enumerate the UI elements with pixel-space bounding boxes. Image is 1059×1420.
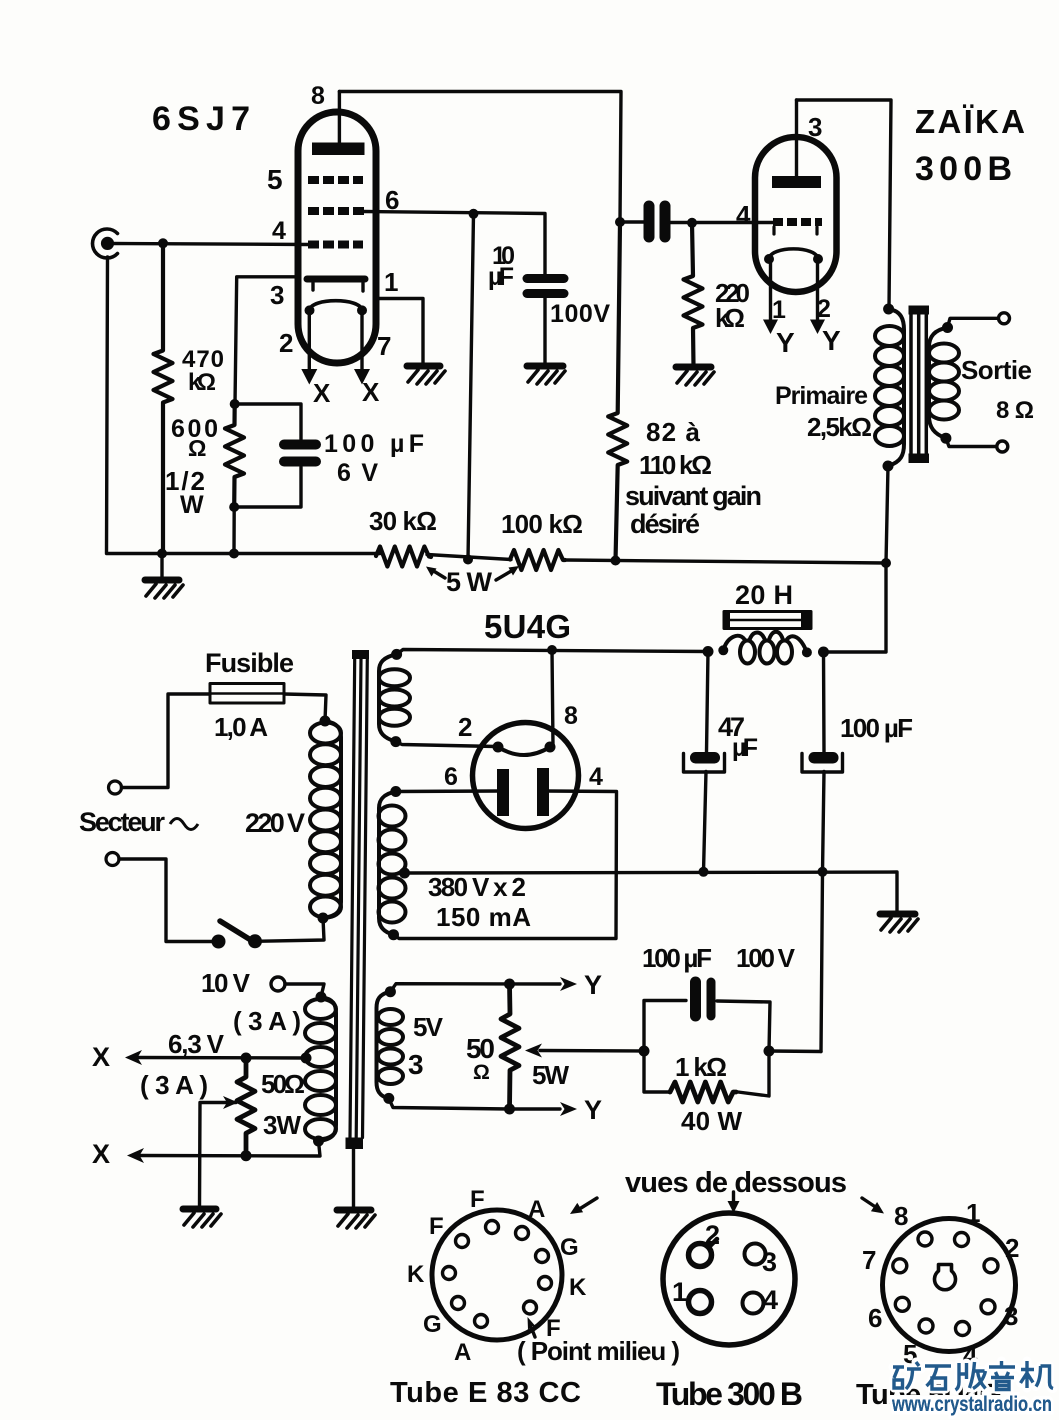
6SJ7 plate lead pin 8 (338, 92, 341, 144)
resistor R9 1k 40W (670, 1082, 736, 1102)
terminal 10V (271, 977, 285, 991)
5U4G filament (498, 747, 550, 755)
300B filament end dots (764, 254, 774, 264)
socket 5U4G pin 2 (984, 1259, 998, 1273)
wire 1k right (738, 1051, 769, 1096)
ground G1 (145, 554, 183, 599)
ground G2 pin1 (407, 366, 445, 384)
node rect filament top (391, 649, 402, 660)
wire core to ground (352, 1149, 355, 1209)
transformer T2 5V winding (377, 992, 404, 1099)
wire B+ rail to right (566, 560, 886, 563)
ground G5 core (337, 1210, 375, 1228)
terminal output top (999, 313, 1010, 324)
wire filament bottom to pin2 (396, 742, 496, 747)
socket E83CC pin K right (539, 1277, 552, 1290)
node cathode bottom (229, 502, 239, 512)
node coupling cap / plate (615, 217, 625, 227)
socket 300B pin 2 key tail (709, 1239, 717, 1247)
node choke coil end (802, 647, 812, 657)
arrow Y bottom (560, 1102, 577, 1116)
socket 300B pin 4 (743, 1293, 764, 1314)
wire pin3 of 6SJ7 to cathode network (235, 277, 299, 404)
socket 5U4G pin 4 (956, 1322, 970, 1336)
resistor R8 50ohm 5W rheostat (501, 984, 519, 1109)
wire secondary top to output terminal (948, 318, 999, 327)
node primary top (320, 716, 331, 727)
node rheostat top (504, 979, 515, 990)
node OPT primary bottom (883, 461, 894, 472)
wire 600ohm bottom to ground rail (232, 507, 236, 554)
6SJ7 grid1 control (dashed) (308, 241, 363, 249)
300B filament (769, 249, 818, 259)
node bias network left (639, 1046, 650, 1057)
fuse F1 (210, 684, 284, 704)
tube V1 6SJ7 envelope (298, 112, 376, 363)
transformer T2 core (346, 650, 370, 1149)
capacitor C6 100uF bias plates (696, 982, 712, 1016)
6SJ7 heater lead pin 2 with arrow to X (301, 310, 317, 385)
6SJ7 plate (312, 143, 365, 156)
ground G3 under 10uF (527, 366, 565, 384)
node HV centre tap (399, 868, 410, 879)
wire cap right to 300B grid (671, 221, 774, 224)
node primary bottom (318, 913, 329, 924)
wire HV top to 5U4G pin6 (396, 789, 500, 793)
wire filament top to choke input (397, 650, 708, 655)
socket 300B pin 2 (689, 1244, 712, 1267)
socket E83CC pin A bottom (475, 1315, 488, 1328)
5U4G anode left (497, 769, 509, 816)
leader arrow 5W left (426, 567, 445, 579)
node humdinger bottom (241, 1150, 252, 1161)
node B+ rail right (881, 558, 891, 568)
socket E83CC pin F bottom-right (524, 1301, 537, 1314)
5U4G anode right (537, 768, 549, 816)
node 5V bottom (383, 1093, 394, 1104)
6SJ7 heater lead pin 7 with arrow to X (354, 310, 370, 385)
transformer T1 OPT secondary winding (929, 328, 959, 439)
resistor R6 220k grid leak (684, 223, 703, 366)
wire switch to transformer primary bottom (255, 918, 324, 941)
wire pin6 screen to 10uF branch (364, 212, 545, 275)
choke L1 winding (723, 632, 807, 664)
resistor R3 30k (376, 547, 431, 567)
socket 5U4G pin 7 (893, 1259, 907, 1273)
capacitor C3 coupling plates (649, 206, 665, 237)
wire bias network left leg up (644, 1001, 686, 1052)
node 6.3V tap (301, 1053, 312, 1064)
node 600ohm rail (229, 549, 239, 559)
capacitor C5 100uF body (802, 752, 843, 772)
wire fuse to transformer primary (284, 694, 326, 721)
wire bias cap right (717, 1001, 770, 1051)
wire 5V top to Y arrow (390, 984, 560, 992)
arrow vues to 5U4G (862, 1198, 884, 1214)
choke L1 20H core (724, 612, 811, 629)
wire HV centre tap ground rail (405, 872, 898, 913)
node HV bottom (388, 929, 399, 940)
OPT core (909, 306, 930, 464)
transformer T2 primary 220V winding (310, 721, 341, 918)
node bias network right (764, 1046, 775, 1057)
node choke coil start (718, 645, 728, 655)
resistor R2 600 ohm (225, 404, 244, 507)
transformer T1 OPT primary winding (875, 309, 904, 466)
node 5V top (385, 986, 396, 997)
resistor R1 470k (154, 248, 173, 553)
capacitor C4 47uF body (684, 752, 725, 772)
6SJ7 cathode end dots (305, 305, 315, 315)
transformer T2 rectifier filament winding (379, 654, 410, 741)
arrow point milieu (528, 1317, 538, 1337)
5U4G filament dots (493, 742, 504, 753)
socket E83CC pin G lower-left (452, 1297, 465, 1310)
resistor R7 50ohm 3W (237, 1058, 255, 1156)
node HV top (390, 786, 401, 797)
ground G6 main (880, 914, 918, 932)
socket 5U4G pin 3 (981, 1300, 995, 1314)
wire X bottom line (139, 1141, 320, 1156)
switch S1 (212, 921, 263, 949)
node cathode top (230, 399, 240, 409)
socket E83CC pin K left (443, 1267, 456, 1280)
wire rail 30k to 100k (427, 555, 511, 560)
sine symbol after Secteur (170, 819, 198, 830)
node divider screen junction (463, 555, 473, 565)
wire B+ down to choke output (824, 563, 887, 652)
wire secondary bottom to output terminal (946, 438, 996, 446)
6SJ7 grid3 (dashed) (308, 176, 363, 184)
6SJ7 beam shield bar pin1 (307, 279, 365, 291)
wire 100uF to ground rail and bias network (821, 772, 824, 1052)
wire 10V to 6.3V winding top (285, 984, 324, 997)
socket 5U4G pin 6 (895, 1297, 909, 1311)
wire 47uF to ground rail (704, 772, 707, 872)
socket 300B outline (663, 1213, 795, 1345)
arrow Y top (560, 977, 577, 991)
node 470k bottom / ground rail (157, 549, 167, 559)
wire pin1 to ground (376, 299, 423, 366)
arrow X bottom (127, 1148, 144, 1163)
node OPT primary top (883, 304, 894, 315)
300B filament lead pin 2 with arrow to Y (810, 259, 825, 334)
watermark crystalradio (890, 1395, 1059, 1415)
socket E83CC pin F upper-left (456, 1235, 469, 1248)
tube V3 5U4G envelope (473, 723, 579, 829)
node 5U4G cathode tap (547, 645, 557, 655)
resistor R5 82-110k plate load (608, 222, 627, 561)
wire pin8 down into 5U4G (552, 650, 553, 746)
arrow vues to E83CC (570, 1198, 597, 1214)
node choke left (703, 646, 714, 657)
capacitor C5 100uF lead (822, 652, 826, 752)
300B plate (772, 176, 821, 188)
svg-text:www.crystalradio.cn: www.crystalradio.cn (891, 1393, 1052, 1416)
capacitor C1 plates (284, 445, 316, 462)
ground G7 humdinger (183, 1209, 221, 1227)
ground G4 under 220k (676, 367, 714, 385)
6SJ7 grid2 screen (dashed) (308, 207, 364, 215)
wire 6.3V tap to X arrow (137, 1056, 306, 1060)
wiper arrow R8 from bias network (525, 1044, 644, 1058)
capacitor C2 10uF plates (527, 279, 564, 294)
transformer T2 6.3V winding (305, 997, 336, 1141)
socket 5U4G pin 1 (955, 1233, 969, 1247)
socket E83CC pin F top (486, 1221, 499, 1234)
socket 300B pin 1 (689, 1291, 712, 1314)
wire 10uF to ground (543, 298, 546, 365)
terminal mains top (109, 781, 122, 794)
socket E83CC pin A top-right (516, 1227, 529, 1240)
wire HV bottom to 5U4G pin4 (394, 791, 617, 939)
node OPT secondary bottom (940, 433, 951, 444)
node rect filament bottom (390, 736, 401, 747)
node 6.3V bottom (313, 1136, 324, 1147)
wire ground rail left segment (162, 552, 380, 555)
wire cap left stub (620, 220, 644, 223)
capacitor C4 47uF lead (707, 652, 709, 753)
wire mains top to fuse (122, 694, 211, 788)
socket 5U4G outline (883, 1219, 1016, 1352)
leader arrow 5W right (496, 566, 519, 580)
socket E83CC outline (432, 1210, 562, 1340)
300B filament lead pin 1 with arrow to Y (763, 259, 778, 334)
node 220k grid junction (687, 218, 697, 228)
arrow vues to 300B (728, 1192, 740, 1213)
capacitor C1 100uF 6V top wire (235, 404, 301, 439)
wire bias network to ground line (769, 1049, 821, 1053)
terminal mains bottom (106, 853, 119, 866)
6SJ7 cathode (310, 301, 363, 311)
node plate-resistor bottom (611, 556, 621, 566)
node screen tap (469, 209, 479, 219)
arrow X top (125, 1050, 142, 1065)
wire plate top rail to coupling cap (339, 92, 621, 223)
wire mains bottom to switch (119, 859, 212, 942)
terminal output bottom (997, 441, 1008, 452)
socket E83CC pin G upper-right (536, 1250, 549, 1263)
wire bias network left leg down (644, 1051, 670, 1092)
wire jack sleeve down to ground rail (107, 257, 163, 554)
socket 5U4G centre key (934, 1265, 955, 1290)
node 100uF ground (818, 867, 828, 877)
wire OPT primary bottom to B+ rail (886, 466, 888, 563)
wire 300B plate to OPT primary (797, 100, 892, 309)
wire screen tap down to divider (468, 214, 474, 560)
wire 5V bottom to Y arrow (389, 1098, 560, 1109)
node 47uF ground (699, 867, 709, 877)
socket 300B pin 3 (745, 1244, 766, 1265)
node humdinger top (241, 1053, 252, 1064)
300B grid (dashed) (773, 222, 822, 234)
node grid input (158, 238, 168, 248)
socket 5U4G pin 5 (919, 1319, 933, 1333)
node OPT secondary top (942, 322, 953, 333)
node choke right (818, 647, 829, 658)
transformer T2 HV winding 380Vx2 (379, 792, 406, 935)
input jack J1 (92, 229, 117, 258)
capacitor C1 bottom wire (234, 467, 301, 507)
node 6.3V top (316, 992, 327, 1003)
resistor R4 100k (510, 550, 565, 570)
tube V2 300B envelope (755, 137, 837, 292)
300B plate lead pin 3 (795, 100, 798, 176)
socket 5U4G pin 8 (918, 1232, 932, 1246)
node rheostat bottom (504, 1104, 515, 1115)
wiper arrow R7 (200, 1096, 239, 1208)
wire jack to grid of 6SJ7 (112, 244, 308, 245)
